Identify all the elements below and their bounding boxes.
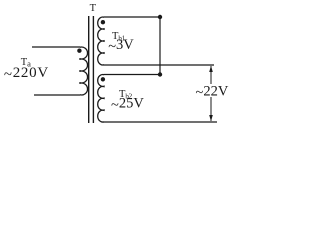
wire: secondary1 top lead [104, 16, 160, 18]
winding Tb2 secondary coil [98, 75, 104, 123]
measurement arrow shaft bottom [210, 97, 212, 121]
arrowhead up [209, 66, 213, 72]
svg-text:T: T [90, 3, 97, 14]
wire: secondary2 top lead [104, 74, 160, 76]
winding Ta primary coil [80, 47, 88, 95]
junction node top [158, 15, 162, 19]
wire: secondary1 bottom lead [104, 64, 214, 66]
svg-text:~3V: ~3V [108, 37, 134, 55]
arrowhead down [209, 115, 213, 121]
measurement arrow shaft top [210, 66, 212, 84]
svg-text:~22V: ~22V [196, 83, 229, 101]
polarity dot secondary1 [101, 20, 105, 24]
wire: primary top lead [32, 46, 80, 48]
wire: vertical link between windings [159, 17, 161, 75]
svg-text:~25V: ~25V [111, 96, 144, 114]
polarity dot secondary2 [101, 77, 105, 81]
wire: secondary2 bottom lead [104, 121, 217, 123]
polarity dot primary [77, 49, 81, 53]
winding Tb1 secondary coil [98, 17, 104, 65]
svg-text:~220V: ~220V [4, 65, 49, 83]
junction node bottom [158, 72, 162, 76]
wire: primary bottom lead [34, 94, 80, 96]
transformer core (double bars) [88, 16, 90, 123]
